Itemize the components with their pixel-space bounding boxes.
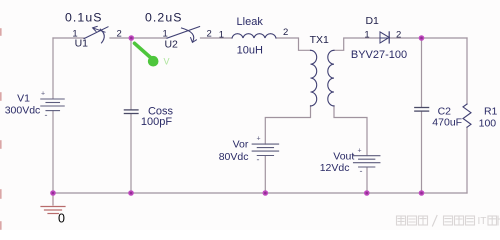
svg-text:BYV27-100: BYV27-100 bbox=[351, 49, 407, 61]
svg-text:-: - bbox=[257, 155, 260, 165]
wire TX1 primary bottom to Vor bbox=[265, 106, 310, 144]
svg-text:V1: V1 bbox=[17, 93, 30, 105]
pin 1 of U1 bbox=[72, 28, 77, 39]
svg-text:U1: U1 bbox=[75, 37, 89, 49]
value 80Vdc bbox=[219, 151, 249, 163]
svg-text:Vor: Vor bbox=[233, 139, 249, 151]
wire top-right corner down to R1 bbox=[466, 38, 468, 104]
junction node at U1/U2/Coss bbox=[129, 35, 135, 41]
svg-text:100pF: 100pF bbox=[141, 116, 172, 128]
refdes C2 bbox=[438, 106, 452, 118]
node 0 label bbox=[58, 212, 65, 226]
wire V1 bottom to ground rail bbox=[52, 111, 54, 193]
value 300Vdc bbox=[5, 105, 41, 117]
junction node Coss bottom bbox=[128, 190, 134, 196]
svg-text:2: 2 bbox=[117, 28, 122, 39]
wire top rail left segment to U1 bbox=[53, 37, 84, 39]
svg-text:10uH: 10uH bbox=[237, 45, 263, 57]
battery Vor plates bbox=[252, 136, 278, 165]
wire C2 branch upper bbox=[421, 38, 423, 107]
svg-text:IT: IT bbox=[478, 216, 487, 227]
diode D1 bbox=[380, 32, 389, 43]
transformer TX1 secondary winding bbox=[328, 50, 334, 106]
capacitor C2 plates bbox=[415, 108, 429, 112]
battery Vout plates bbox=[354, 147, 380, 176]
wire Lleak pin2 to TX1 primary top bbox=[276, 38, 311, 50]
junction node Vout bottom bbox=[364, 190, 370, 196]
wire Vout bottom to ground rail bbox=[366, 167, 368, 193]
svg-text:R1: R1 bbox=[484, 106, 498, 118]
wire Vor bottom to ground rail bbox=[264, 156, 266, 193]
pin 1 of D1 bbox=[364, 29, 369, 40]
wire R1 bottom to ground rail bbox=[466, 127, 468, 193]
wire Coss branch upper bbox=[130, 38, 132, 110]
refdes D1 bbox=[365, 15, 379, 27]
wire U1 pin2 to U2 pin1 bbox=[110, 37, 167, 39]
wire Coss branch lower bbox=[130, 114, 132, 193]
pin 1 of Lleak bbox=[219, 29, 224, 40]
svg-text:+: + bbox=[256, 136, 260, 143]
svg-text:0.2uS: 0.2uS bbox=[145, 11, 183, 25]
value 12Vdc bbox=[320, 162, 350, 174]
switch U2 (tClose) blade, travel arc and arrow bbox=[167, 27, 200, 43]
refdes Vor bbox=[233, 139, 249, 151]
wire top-left vertical from V1 to top rail bbox=[52, 38, 54, 99]
svg-text:1: 1 bbox=[219, 29, 224, 40]
refdes TX1 bbox=[310, 34, 329, 46]
junction node Vor bottom bbox=[263, 190, 269, 196]
refdes Lleak bbox=[237, 16, 264, 28]
wire U2 pin2 to Lleak pin1 bbox=[201, 37, 233, 39]
resistor R1 zigzag bbox=[463, 104, 471, 127]
pin 2 of D1 bbox=[396, 29, 401, 40]
svg-text:1: 1 bbox=[364, 29, 369, 40]
value 100 bbox=[479, 118, 497, 130]
pin 2 of Lleak bbox=[283, 27, 288, 38]
transformer TX1 primary winding bbox=[311, 50, 317, 106]
svg-text:-: - bbox=[45, 110, 48, 120]
value 100pF bbox=[141, 116, 172, 128]
svg-text:0: 0 bbox=[58, 212, 65, 226]
svg-text:80Vdc: 80Vdc bbox=[219, 151, 249, 163]
wire D1 cathode to top-right corner bbox=[390, 37, 468, 39]
value 10uH bbox=[237, 45, 263, 57]
wire C2 branch lower bbox=[421, 111, 423, 193]
svg-text:100: 100 bbox=[479, 118, 497, 130]
svg-text:2: 2 bbox=[207, 29, 212, 40]
refdes Vout bbox=[333, 151, 354, 163]
value 470uF bbox=[432, 117, 462, 129]
ground symbol (node 0) bbox=[41, 193, 65, 214]
wire TX1 secondary top to D1 anode bbox=[334, 38, 380, 50]
junction node at D1 cathode / C2 bbox=[419, 35, 425, 41]
switch U1 (tOpen) blade, arrow and arc bbox=[84, 26, 108, 43]
svg-text:470uF: 470uF bbox=[432, 117, 462, 129]
refdes Coss bbox=[148, 106, 174, 118]
svg-text:Lleak: Lleak bbox=[237, 16, 264, 28]
pin 2 of U2 bbox=[207, 29, 212, 40]
svg-text:+: + bbox=[41, 91, 45, 98]
svg-text:12Vdc: 12Vdc bbox=[320, 162, 350, 174]
svg-text:-: - bbox=[360, 166, 363, 176]
refdes U1 bbox=[75, 37, 89, 49]
pin 2 of U1 bbox=[117, 28, 122, 39]
capacitor Coss plates bbox=[124, 110, 138, 114]
svg-text:U2: U2 bbox=[164, 38, 178, 50]
svg-text:0.1uS: 0.1uS bbox=[65, 11, 103, 25]
svg-text:300Vdc: 300Vdc bbox=[5, 105, 41, 117]
watermark blocks bottom right bbox=[397, 216, 475, 227]
svg-text:2: 2 bbox=[396, 29, 401, 40]
junction node C2 bottom bbox=[419, 190, 425, 196]
refdes V1 bbox=[17, 93, 30, 105]
svg-text:2: 2 bbox=[283, 27, 288, 38]
svg-text:V: V bbox=[164, 57, 170, 67]
value BYV27-100 bbox=[351, 49, 407, 61]
label 0.2uS for U2 bbox=[145, 11, 183, 25]
junction node ground/V1 bbox=[50, 190, 56, 196]
inductor Lleak bbox=[232, 34, 276, 38]
wire TX1 secondary bottom to Vout bbox=[334, 106, 367, 156]
refdes U2 bbox=[164, 38, 178, 50]
wire bottom ground rail bbox=[53, 192, 467, 194]
refdes R1 bbox=[484, 106, 498, 118]
pin 1 of U2 bbox=[163, 29, 168, 40]
label 0.1uS for U1 bbox=[65, 11, 103, 25]
svg-text:+: + bbox=[357, 147, 361, 154]
battery V1 plates bbox=[41, 91, 64, 120]
voltage probe (green marker V) bbox=[135, 43, 170, 66]
svg-text:Vout: Vout bbox=[333, 151, 354, 163]
watermark IT text bbox=[478, 216, 500, 227]
left edge scan artifacts bbox=[0, 29, 2, 229]
svg-text:D1: D1 bbox=[365, 15, 379, 27]
svg-text:TX1: TX1 bbox=[310, 34, 329, 46]
